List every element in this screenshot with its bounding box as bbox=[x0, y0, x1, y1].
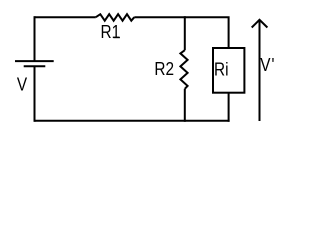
svg-text:R2: R2 bbox=[154, 59, 174, 80]
wire top left: battery top to R1 bbox=[35, 16, 96, 18]
svg-text:V': V' bbox=[260, 55, 274, 76]
wire: battery bottom lead bbox=[34, 66, 36, 122]
wire bottom: from battery to Ri lead bbox=[35, 120, 230, 122]
svg-text:R1: R1 bbox=[100, 22, 120, 43]
wire: Ri bottom lead bbox=[228, 93, 230, 122]
resistor R2 bbox=[154, 50, 187, 89]
resistor R1 bbox=[96, 14, 135, 42]
voltage source V (battery) bbox=[15, 61, 54, 95]
wire top right: R1 to corner and down to Ri bbox=[134, 17, 228, 48]
wire: R2 top lead bbox=[184, 16, 186, 50]
wire: battery top lead bbox=[34, 16, 36, 61]
wire: R2 bottom lead bbox=[184, 89, 186, 122]
svg-text:Ri: Ri bbox=[214, 59, 228, 80]
arrow V' (output voltage) bbox=[252, 20, 275, 121]
svg-text:V: V bbox=[17, 74, 28, 95]
resistor Ri (box) bbox=[213, 48, 244, 93]
